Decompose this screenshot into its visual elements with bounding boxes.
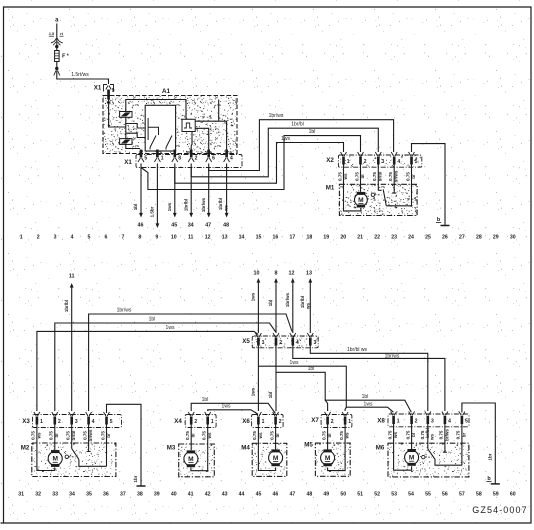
svg-text:X4: X4 [174, 418, 182, 425]
svg-text:56: 56 [442, 491, 448, 497]
svg-text:M: M [358, 197, 364, 204]
svg-text:10: 10 [254, 271, 260, 277]
svg-text:ws: ws [305, 303, 310, 311]
svg-text:7: 7 [121, 234, 124, 240]
wire 1bl from X5 pin 2 down to X6 pin 2 [275, 346, 277, 412]
svg-text:43: 43 [222, 491, 228, 497]
svg-text:X5: X5 [242, 338, 250, 345]
svg-text:5: 5 [465, 419, 468, 425]
branch 1ws to X4 pin 1 [208, 410, 258, 414]
svg-text:1ws: 1ws [281, 136, 290, 142]
motor M3 symbol [184, 452, 198, 466]
svg-text:1br/bl: 1br/bl [183, 199, 188, 211]
svg-text:48: 48 [223, 222, 229, 228]
svg-text:34: 34 [188, 222, 194, 228]
pin X2-1 [342, 157, 345, 165]
svg-text:F *: F * [62, 54, 70, 60]
svg-text:31: 31 [18, 491, 24, 497]
svg-text:9: 9 [155, 234, 158, 240]
continuation arrow 10, wire 1ws to X5 pin 1 [257, 278, 261, 283]
svg-text:0.75: 0.75 [185, 431, 190, 440]
M6 limit switch [427, 424, 429, 449]
continuation arrow 13, wire 1br/bl ws to X5 pin 3 [308, 278, 312, 283]
svg-text:1.5: 1.5 [49, 32, 54, 36]
svg-text:2: 2 [194, 419, 197, 425]
pin X5-2 [275, 338, 278, 346]
svg-text:30: 30 [510, 234, 516, 240]
svg-text:0.75: 0.75 [321, 431, 326, 440]
svg-text:20: 20 [340, 234, 346, 240]
svg-text:0.75: 0.75 [456, 430, 461, 439]
svg-text:45: 45 [256, 491, 262, 497]
ground terminal b (top) [441, 225, 450, 227]
svg-text:17: 17 [290, 234, 296, 240]
svg-text:44: 44 [239, 491, 245, 497]
svg-text:3: 3 [382, 159, 385, 165]
svg-text:0.75: 0.75 [354, 172, 359, 181]
wire 1ws from X1 to coordinate 45 [174, 164, 176, 215]
M5 wiring [328, 425, 346, 471]
svg-text:1bl: 1bl [308, 366, 315, 372]
svg-text:10: 10 [171, 234, 177, 240]
relay contact blades [150, 136, 172, 148]
svg-text:2: 2 [279, 340, 282, 346]
svg-text:26: 26 [442, 234, 448, 240]
pin X6-2 [274, 417, 277, 425]
svg-text:ws: ws [430, 434, 435, 442]
pin X3-1 [36, 417, 39, 425]
svg-text:0.75: 0.75 [339, 431, 344, 440]
svg-text:2: 2 [58, 419, 61, 425]
svg-text:21: 21 [357, 234, 363, 240]
pin X3-2 [54, 417, 57, 425]
branch 1ws to X7/X8 [258, 366, 393, 412]
svg-text:6: 6 [212, 155, 215, 161]
svg-text:42: 42 [205, 491, 211, 497]
svg-text:1.5rt/ws: 1.5rt/ws [71, 72, 89, 78]
distribution wire 1br/ws to X3 pin 4 [89, 314, 292, 411]
svg-text:3: 3 [314, 340, 317, 346]
motor M5 symbol [321, 451, 335, 465]
svg-text:16: 16 [273, 234, 279, 240]
pin X4-2 [190, 417, 193, 425]
svg-text:22: 22 [374, 234, 380, 240]
svg-text:8: 8 [178, 155, 181, 161]
pin X7-2 [326, 417, 329, 425]
svg-text:28: 28 [476, 234, 482, 240]
svg-text:41: 41 [188, 491, 194, 497]
svg-text:1ws: 1ws [251, 387, 256, 396]
svg-text:1br/bl: 1br/bl [291, 122, 304, 128]
svg-text:1br/ws: 1br/ws [285, 292, 290, 307]
internal wiring of A1 [125, 117, 127, 138]
svg-text:11: 11 [69, 274, 75, 280]
svg-text:2: 2 [279, 419, 282, 425]
motor M1 symbol [355, 193, 368, 206]
wire 1.5br from X1 (ground) [156, 164, 158, 225]
svg-text:34: 34 [69, 491, 75, 497]
svg-text:1ws: 1ws [290, 360, 299, 366]
svg-text:1bl: 1bl [202, 397, 209, 403]
svg-text:24: 24 [408, 234, 414, 240]
svg-text:40: 40 [171, 491, 177, 497]
ground terminal (1br) left [137, 485, 146, 487]
svg-text:0.75: 0.75 [387, 430, 392, 439]
relay coil K2 [120, 139, 132, 145]
svg-text:1bl: 1bl [362, 394, 369, 400]
svg-text:5: 5 [144, 155, 147, 161]
svg-text:38: 38 [137, 491, 143, 497]
svg-text:0.75: 0.75 [372, 172, 377, 181]
svg-text:46: 46 [138, 222, 144, 228]
svg-text:5: 5 [88, 234, 91, 240]
pin X8-1 [392, 416, 395, 424]
pin X3-5 [105, 417, 108, 425]
svg-text:35: 35 [86, 491, 92, 497]
pin X8-5 [461, 416, 464, 424]
pin X4-1 [206, 417, 209, 425]
branch 1bl to X4 pin 2 [191, 403, 275, 413]
wire 1br from X3 pin 5 to ground [107, 404, 142, 486]
svg-text:0.75: 0.75 [66, 431, 71, 440]
M6 wiring [394, 424, 412, 470]
svg-text:1: 1 [348, 419, 351, 425]
svg-text:4: 4 [92, 419, 95, 425]
svg-text:13: 13 [222, 234, 228, 240]
svg-text:6: 6 [105, 234, 108, 240]
svg-text:53: 53 [391, 491, 397, 497]
continuation arrow 8, wire 1bl to X5 pin 2 [274, 278, 278, 283]
connector fork below fuse [56, 62, 58, 69]
relay coil K1 [120, 112, 132, 118]
svg-text:11: 11 [188, 234, 194, 240]
svg-text:0.75: 0.75 [388, 172, 393, 181]
svg-text:39: 39 [154, 491, 160, 497]
pin X1-5 [140, 150, 143, 158]
distribution wire 1bl to X3 pin 2 [55, 323, 276, 411]
M2 wiring [37, 425, 55, 471]
svg-text:1br/bl ws: 1br/bl ws [347, 347, 368, 353]
svg-text:1br/ws: 1br/ws [269, 113, 284, 119]
wire from pin 9 inside A1 [109, 100, 126, 128]
pin X6-1 [257, 417, 260, 425]
pin X2-4 [393, 157, 396, 165]
wire 1.5rt/ws to X1 pin 9 [57, 71, 109, 85]
wire 1bl run from X1 pin 1 to X2 pin 2 [141, 136, 361, 190]
wire from terminal a [56, 24, 58, 46]
svg-text:33: 33 [52, 491, 58, 497]
svg-text:60: 60 [510, 491, 516, 497]
pin X1-8 [174, 150, 177, 158]
wire 1br from X2 pin 5 to ground point b [412, 144, 446, 226]
pin X8-2 [410, 416, 413, 424]
svg-text:M6: M6 [376, 445, 385, 452]
svg-text:1ws: 1ws [364, 402, 373, 408]
svg-text:0.75: 0.75 [100, 431, 105, 440]
svg-text:1br/bl: 1br/bl [300, 296, 305, 308]
svg-text:X8: X8 [377, 418, 385, 425]
motor M2 symbol [48, 452, 62, 466]
junction dot [55, 45, 58, 48]
pin X2-2 [359, 157, 362, 165]
M1 wiring pin1/pin2 to motor [344, 165, 361, 211]
continuation arrow 12, wire 1br/ws to X5 pin 4 [291, 278, 295, 283]
svg-text:49: 49 [323, 491, 329, 497]
wire 1br/bl ws from X5 pin 3 to X8 pin 3 [310, 346, 428, 412]
svg-text:ws: ws [223, 205, 228, 213]
svg-text:1.5br: 1.5br [150, 206, 155, 217]
svg-text:X1: X1 [124, 159, 132, 166]
svg-text:1bl: 1bl [268, 300, 273, 307]
pin X2-5 [410, 157, 413, 165]
svg-text:1: 1 [161, 155, 164, 161]
svg-text:3: 3 [75, 419, 78, 425]
continuation arrow 11, wire 1br/bl to X3 pin 3 [70, 283, 74, 288]
pin X1-2 [190, 150, 193, 158]
svg-text:A1: A1 [162, 88, 171, 95]
pin X8-3 [427, 416, 430, 424]
pin X7-1 [344, 417, 347, 425]
svg-text:59: 59 [493, 491, 499, 497]
electronic module block inside A1 [145, 105, 175, 151]
svg-text:X3: X3 [22, 418, 30, 425]
svg-text:0.75: 0.75 [31, 431, 36, 440]
svg-text:57: 57 [459, 491, 465, 497]
pin X3-3 [70, 417, 73, 425]
svg-text:0.75: 0.75 [202, 431, 207, 440]
svg-text:1: 1 [262, 419, 265, 425]
M4 wiring [258, 425, 275, 471]
wire 1br/bl run from X1 pin 5 to X2 pin 3 [191, 128, 378, 177]
svg-text:8: 8 [275, 271, 278, 277]
svg-text:4: 4 [448, 419, 451, 425]
svg-text:1: 1 [262, 340, 265, 346]
svg-text:4: 4 [71, 234, 74, 240]
wire 1br/ws run from X1 pin 6 to X2 pin 4 [209, 120, 394, 171]
svg-text:1bl: 1bl [309, 129, 316, 135]
svg-text:1ws: 1ws [251, 292, 256, 301]
svg-text:0.75: 0.75 [49, 431, 54, 440]
svg-text:19: 19 [323, 234, 329, 240]
svg-text:13: 13 [306, 271, 312, 277]
svg-text:1bl: 1bl [133, 204, 138, 211]
svg-text:1: 1 [211, 419, 214, 425]
svg-text:58: 58 [476, 491, 482, 497]
svg-text:3: 3 [431, 419, 434, 425]
svg-text:47: 47 [290, 491, 296, 497]
svg-text:36: 36 [103, 491, 109, 497]
svg-text:48: 48 [306, 491, 312, 497]
svg-text:GZ54-0007: GZ54-0007 [472, 505, 527, 515]
svg-text:4: 4 [230, 155, 233, 161]
M3 wiring [191, 425, 208, 471]
svg-text:M1: M1 [326, 185, 335, 192]
fuse F* [56, 46, 58, 50]
svg-text:1: 1 [40, 419, 43, 425]
svg-text:45: 45 [171, 222, 177, 228]
svg-text:37: 37 [120, 491, 126, 497]
svg-text:0.75: 0.75 [82, 431, 87, 440]
svg-text:M: M [188, 456, 194, 463]
svg-text:52: 52 [374, 491, 380, 497]
svg-text:0.75: 0.75 [252, 431, 257, 440]
svg-text:0.75: 0.75 [405, 430, 410, 439]
svg-text:0.75: 0.75 [405, 172, 410, 181]
svg-text:M: M [409, 455, 415, 462]
svg-text:1br/ws: 1br/ws [385, 353, 400, 359]
svg-text:2: 2 [331, 419, 334, 425]
svg-text:1bl: 1bl [149, 317, 156, 323]
svg-text:25: 25 [425, 234, 431, 240]
interval timer inside A1 [182, 119, 195, 131]
svg-text:X2: X2 [326, 157, 334, 164]
svg-text:55: 55 [425, 491, 431, 497]
svg-text:2: 2 [364, 159, 367, 165]
svg-text:8: 8 [138, 234, 141, 240]
svg-text:3: 3 [54, 234, 57, 240]
svg-text:50: 50 [340, 491, 346, 497]
wire 1bl from X1 to coordinate 46 [140, 164, 142, 215]
svg-text:12: 12 [205, 234, 211, 240]
svg-text:0.75: 0.75 [269, 431, 274, 440]
svg-text:X7: X7 [311, 417, 319, 424]
svg-text:1: 1 [20, 234, 23, 240]
pin X5-3 [309, 338, 312, 346]
pin X2-3 [377, 157, 380, 165]
svg-text:X6: X6 [242, 418, 250, 425]
svg-text:14: 14 [239, 234, 245, 240]
motor M6 symbol [405, 450, 419, 464]
distribution wire 1ws to X3 pin 1 [37, 331, 258, 411]
svg-text:1br: 1br [133, 475, 138, 482]
svg-text:51: 51 [357, 491, 363, 497]
svg-text:2: 2 [195, 155, 198, 161]
svg-text:4: 4 [296, 340, 299, 346]
svg-text:M4: M4 [241, 445, 250, 452]
pin X1-4 [225, 150, 228, 158]
svg-text:12: 12 [289, 271, 295, 277]
svg-text:1br: 1br [488, 453, 493, 460]
svg-text:54: 54 [408, 491, 414, 497]
svg-text:47: 47 [205, 222, 211, 228]
svg-text:1: 1 [397, 419, 400, 425]
motor M4 symbol [269, 451, 283, 465]
svg-text:1: 1 [347, 159, 350, 165]
svg-text:29: 29 [493, 234, 499, 240]
svg-text:2: 2 [415, 419, 418, 425]
wire 1br from X8 pin 5 to ground point b [462, 403, 495, 484]
svg-text:46: 46 [273, 491, 279, 497]
svg-text:M3: M3 [167, 445, 176, 452]
M2 limit switch [71, 425, 73, 449]
timer output wires to pins 4,5,6 [195, 121, 226, 149]
svg-text:32: 32 [35, 491, 41, 497]
svg-text:4: 4 [397, 159, 400, 165]
svg-text:23: 23 [391, 234, 397, 240]
svg-text:M5: M5 [304, 442, 313, 449]
svg-text:1ws: 1ws [167, 202, 172, 211]
svg-text:9: 9 [112, 88, 115, 94]
pin X5-1 [257, 338, 260, 346]
svg-text:0.75: 0.75 [439, 430, 444, 439]
svg-text:M: M [273, 455, 279, 462]
svg-text:1bl: 1bl [268, 392, 273, 399]
svg-text:5: 5 [415, 159, 418, 165]
wire 1ws run from X1 pin 4 to X2 pin 1 [175, 143, 344, 184]
pin X8-4 [444, 416, 447, 424]
svg-text:1br/ws: 1br/ws [201, 197, 206, 212]
wire 1br/bl from X1 to coordinate 34 [190, 164, 192, 215]
wire 1br/bl ws from X1 to coordinate 48 [226, 164, 228, 215]
svg-text:5: 5 [110, 419, 113, 425]
pin X1-1 [156, 150, 159, 158]
svg-text:15: 15 [256, 234, 262, 240]
svg-text:M: M [325, 455, 331, 462]
svg-text:1br/ws: 1br/ws [117, 308, 132, 314]
svg-text:M2: M2 [21, 445, 30, 452]
svg-text:M: M [52, 456, 58, 463]
svg-text:2: 2 [37, 234, 40, 240]
pin X3-4 [87, 417, 90, 425]
svg-text:1br/bl: 1br/bl [64, 300, 69, 312]
ground terminal b (bottom) [491, 483, 500, 485]
wire 1ws from X5 pin 1 down to X6 pin 1 [257, 346, 259, 412]
branch 1bl to X7/X8 [276, 372, 411, 412]
svg-text:1ws: 1ws [222, 403, 231, 409]
svg-text:0.75: 0.75 [337, 172, 342, 181]
svg-text:27: 27 [459, 234, 465, 240]
wire 1br/ws from X1 to coordinate 47 [208, 164, 210, 215]
M1 limit switch [377, 165, 379, 191]
pin X5-4 [292, 338, 295, 346]
svg-text:X1: X1 [94, 85, 102, 92]
pin X1-6 [207, 150, 210, 158]
svg-text:1ws: 1ws [166, 325, 175, 331]
wire 1br/ws from X5 pin 4 to X8 pin 4 [293, 346, 445, 412]
svg-text:1br/bl: 1br/bl [218, 198, 223, 210]
svg-text:18: 18 [306, 234, 312, 240]
